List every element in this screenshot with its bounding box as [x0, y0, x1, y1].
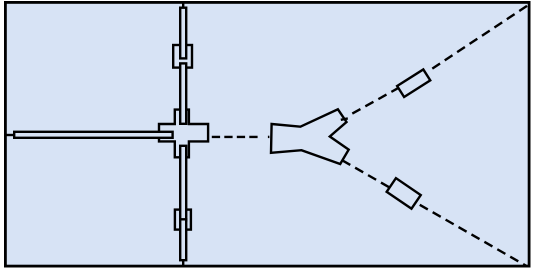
- component R1 rotated rectangle upper: [397, 69, 430, 97]
- node: wye upper port pin tick: [341, 118, 348, 119]
- wire: dashed net cross to wye: [212, 136, 258, 138]
- wye splitter U3: [271, 109, 349, 164]
- line TL3 between gap1 and cross: [180, 63, 186, 123]
- component R2 rotated rectangle lower: [387, 178, 421, 209]
- line TL2 top vertical segment: [180, 8, 186, 59]
- line TL4 between cross and gap2: [180, 146, 186, 221]
- wire: dashed net rect R1 to top-right corner: [432, 6, 527, 69]
- wire: stub dash at wye left port: [268, 136, 270, 138]
- line TL5 bottom vertical segment: [180, 219, 186, 260]
- gap element G2 outer box: [175, 210, 191, 230]
- gap element G1 outer box: [173, 45, 192, 68]
- node: left port pin tick: [5, 134, 14, 136]
- wire: dashed net wye lower arm to bottom-right corner: [342, 160, 527, 266]
- wire: dashed net wye upper arm to rect R1: [352, 72, 426, 113]
- cross junction X1: [159, 110, 208, 158]
- node: top port pin tick: [182, 4, 184, 8]
- node: bottom port pin tick: [182, 260, 184, 265]
- feed line TL1 long horizontal bar: [14, 132, 172, 138]
